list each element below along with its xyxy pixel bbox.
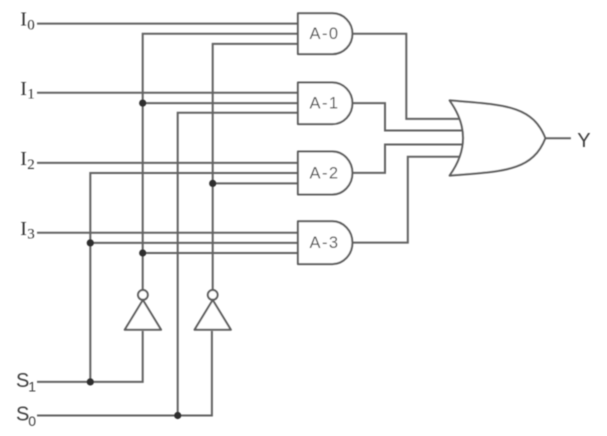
svg-text:A-3: A-3 [310, 234, 340, 252]
svg-text:Y: Y [577, 130, 590, 152]
svg-text:0: 0 [27, 18, 35, 34]
svg-text:I: I [20, 218, 27, 240]
svg-text:1: 1 [28, 378, 36, 394]
svg-text:1: 1 [27, 87, 35, 103]
svg-text:A-0: A-0 [310, 25, 340, 43]
svg-text:3: 3 [27, 227, 35, 243]
svg-text:A-2: A-2 [310, 164, 340, 182]
svg-text:I: I [20, 148, 27, 170]
svg-text:I: I [20, 9, 27, 31]
svg-text:2: 2 [27, 157, 35, 173]
svg-text:I: I [20, 78, 27, 100]
svg-text:A-1: A-1 [310, 95, 340, 113]
svg-text:0: 0 [28, 413, 36, 429]
